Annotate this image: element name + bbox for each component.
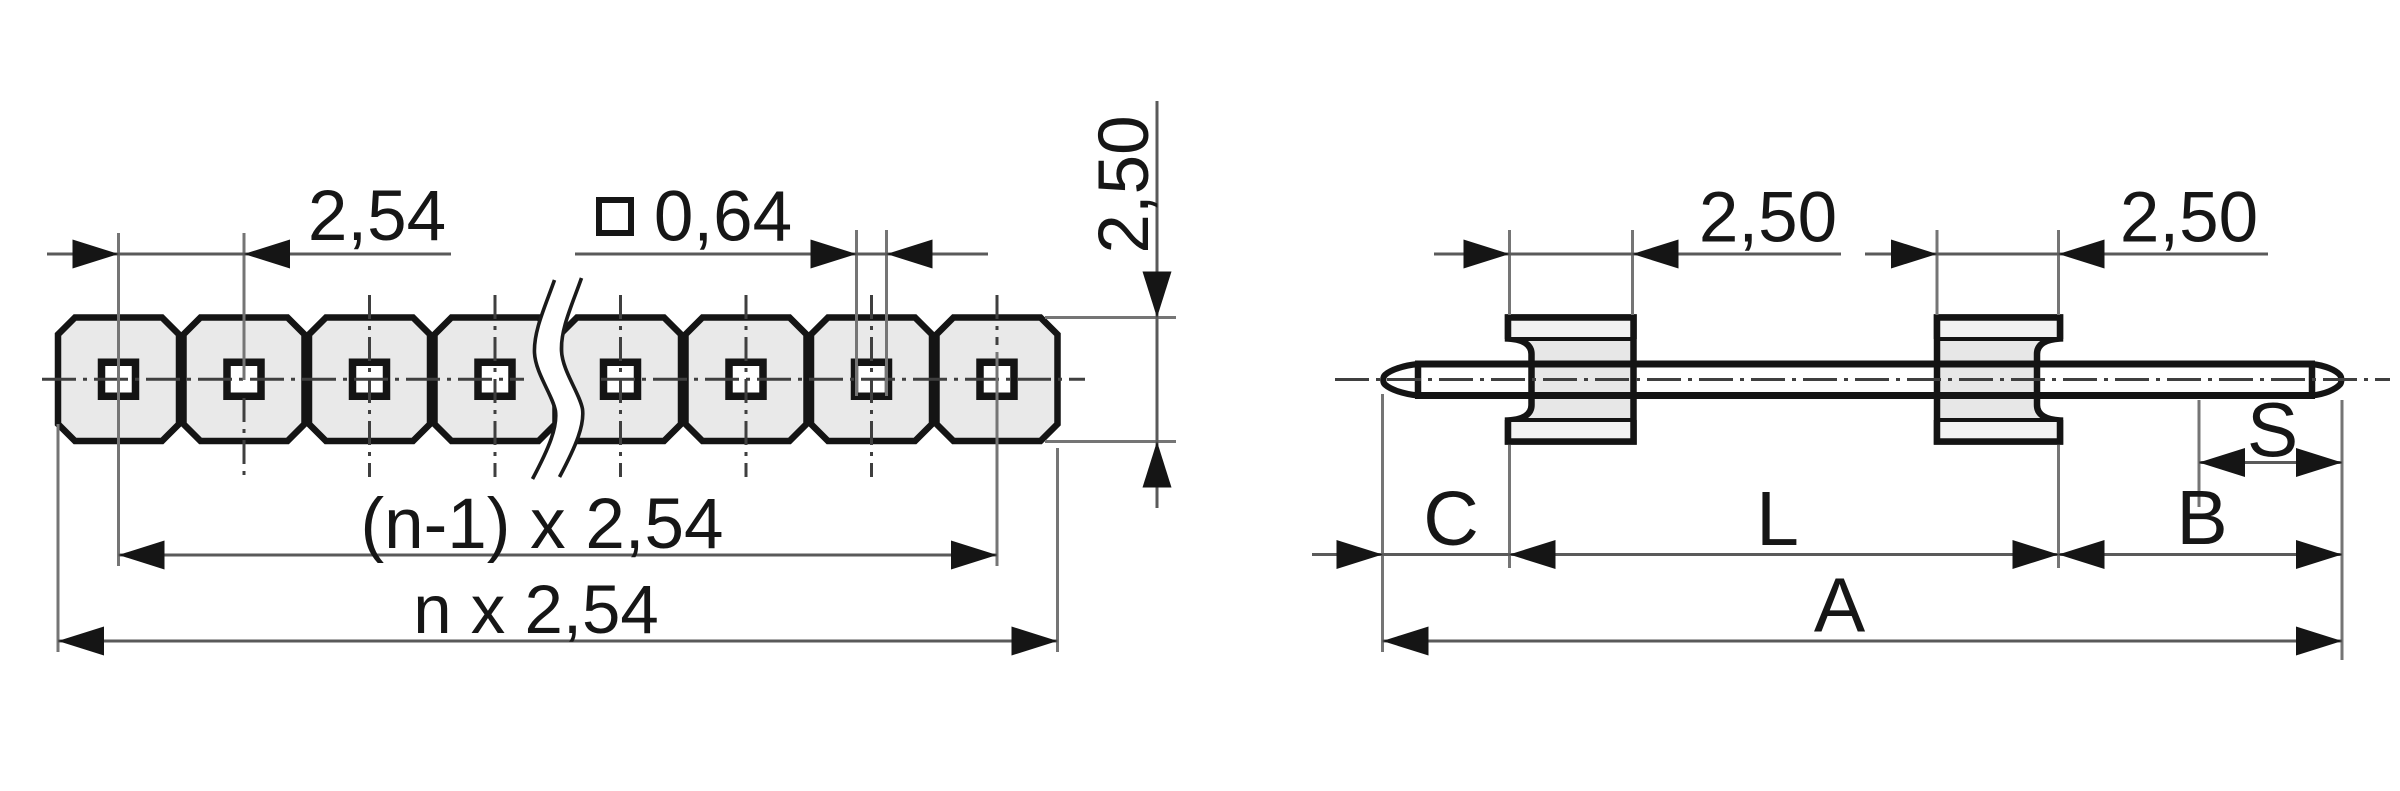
hole pad3 [353, 362, 387, 396]
dimension 2,50 (right body) [1865, 253, 2268, 256]
pad1 centre extension [117, 233, 120, 566]
pad8 centre extension [996, 352, 999, 566]
svg-text:2,50: 2,50 [1085, 115, 1164, 253]
vertical centerlines pads 3-7 [244, 295, 997, 477]
svg-text:A: A [1814, 563, 1866, 649]
svg-text:(n-1) x 2,54: (n-1) x 2,54 [360, 485, 723, 564]
pad 3 [309, 318, 430, 442]
hole pad1 [102, 362, 136, 396]
pad 7 [811, 318, 932, 442]
svg-text:0,64: 0,64 [654, 178, 792, 257]
dimension 2,50 (vertical, right of pads) [1156, 101, 1159, 508]
dimension A [1383, 640, 2343, 643]
svg-text:2,54: 2,54 [308, 177, 446, 256]
break line right [560, 278, 583, 477]
extension lines right view [1383, 230, 2343, 660]
n x 2,54 extension lines [57, 424, 60, 652]
centerline right view [1335, 378, 2390, 381]
pad top/bottom edge extensions to the right [1045, 316, 1176, 319]
svg-text:n x 2,54: n x 2,54 [413, 571, 659, 648]
pad 2 [184, 318, 305, 442]
hole pad2 [227, 362, 261, 396]
pad 6 [686, 318, 807, 442]
dimension 2,54 [47, 253, 451, 256]
hole pad4 [478, 362, 512, 396]
pad 8 [937, 318, 1058, 442]
right nose [2312, 364, 2341, 396]
svg-text:L: L [1756, 476, 1799, 562]
svg-text:S: S [2247, 388, 2298, 474]
svg-text:C: C [1423, 476, 1479, 562]
dimension 0,64 [575, 253, 988, 256]
dimension (n-1) x 2,54 [119, 554, 998, 557]
dimension line C / L / B [1312, 553, 2342, 556]
svg-text:B: B [2176, 475, 2227, 561]
pad 4 [435, 318, 556, 442]
right insulator body [1935, 318, 2062, 442]
hole pad7 [855, 362, 889, 396]
pad 1 [58, 318, 179, 442]
extension lines (solid thin) left view [58, 230, 1176, 652]
square symbol [599, 200, 631, 233]
hole pad6 [729, 362, 763, 396]
pin (contact) outline [1383, 362, 2341, 399]
dimension S [2199, 461, 2342, 464]
pad7 hole edges extensions [855, 230, 858, 396]
svg-text:2,50: 2,50 [1699, 179, 1837, 258]
dimension 2,50 (left body) [1434, 253, 1841, 256]
left insulator body [1506, 318, 1635, 442]
pad2 centre extension [243, 233, 246, 380]
left nose [1383, 364, 1418, 396]
break band (white) [546, 279, 569, 478]
hole pad5 [604, 362, 638, 396]
pad 5 [560, 318, 681, 442]
horizontal centerline left view [42, 378, 1085, 381]
svg-text:2,50: 2,50 [2120, 179, 2258, 258]
hole pad8 [980, 362, 1014, 396]
break line left [533, 280, 556, 479]
dimension n x 2,54 [58, 640, 1058, 643]
